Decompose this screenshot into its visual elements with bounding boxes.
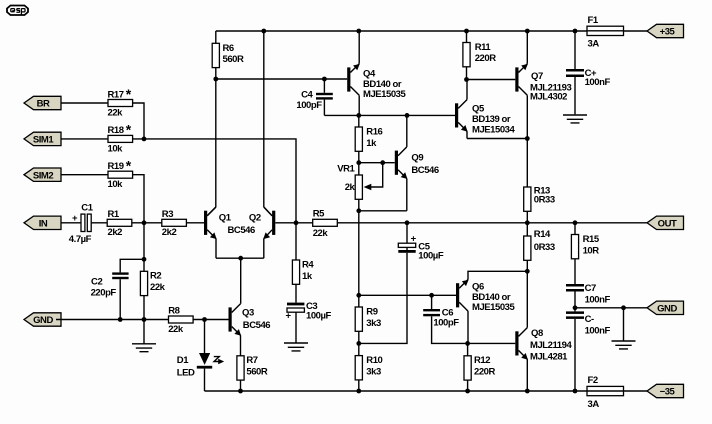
svg-text:IN: IN bbox=[39, 218, 48, 229]
transistor Q5 bbox=[455, 80, 527, 139]
svg-text:BD140 or: BD140 or bbox=[472, 292, 511, 303]
wire BR to R17 bbox=[61, 102, 108, 104]
resistor R3 bbox=[162, 209, 187, 238]
svg-text:+: + bbox=[411, 234, 417, 245]
svg-text:Q9: Q9 bbox=[411, 153, 423, 164]
capacitor C+ bbox=[566, 31, 610, 114]
wire Q8 base line bbox=[468, 342, 516, 344]
wire output ground bbox=[575, 307, 647, 309]
node Q7E-rail bbox=[525, 29, 530, 34]
svg-text:R15: R15 bbox=[583, 234, 600, 245]
svg-text:10k: 10k bbox=[108, 143, 124, 154]
svg-text:22k: 22k bbox=[313, 228, 329, 239]
wire R18 out (SIM1 line) bbox=[133, 139, 296, 223]
svg-text:F1: F1 bbox=[588, 15, 599, 26]
svg-text:MJE15035: MJE15035 bbox=[363, 89, 407, 100]
svg-text:BC546: BC546 bbox=[243, 320, 270, 331]
node ltp-tail bbox=[238, 256, 243, 261]
wire ground rail bbox=[56, 319, 229, 321]
svg-text:R12: R12 bbox=[474, 355, 490, 366]
svg-text:C2: C2 bbox=[91, 276, 102, 287]
resistor R7 bbox=[237, 355, 268, 391]
svg-text:BC546: BC546 bbox=[228, 225, 255, 236]
svg-text:3k3: 3k3 bbox=[366, 318, 381, 329]
node R13-R14 bbox=[525, 220, 530, 225]
wire Q2 collector to rail bbox=[263, 31, 265, 207]
node Q5E-node bbox=[525, 136, 530, 141]
svg-text:MJL21194: MJL21194 bbox=[530, 340, 572, 351]
resistor R19 bbox=[108, 158, 133, 191]
svg-text:220R: 220R bbox=[474, 366, 496, 377]
connector GND-in bbox=[24, 313, 61, 326]
ground output bbox=[623, 308, 625, 341]
node Q8E-bot bbox=[525, 389, 530, 394]
svg-text:Q3: Q3 bbox=[242, 308, 254, 319]
connector SIM1 bbox=[24, 132, 61, 145]
node R9-top bbox=[356, 293, 361, 298]
capacitor C3 bbox=[286, 301, 332, 343]
wire input filter node bbox=[143, 223, 145, 259]
svg-text:10R: 10R bbox=[583, 245, 600, 256]
svg-text:2k2: 2k2 bbox=[162, 227, 177, 238]
node Cminus-bot bbox=[573, 389, 578, 394]
wire SIM2 to R19 bbox=[61, 174, 108, 176]
svg-text:1k: 1k bbox=[302, 271, 313, 282]
svg-text:MJE15035: MJE15035 bbox=[472, 302, 516, 313]
svg-text:3k3: 3k3 bbox=[366, 366, 381, 377]
connector GND-out bbox=[647, 301, 684, 314]
capacitor C4 bbox=[296, 79, 358, 115]
wire LTP emitters bbox=[215, 239, 217, 259]
svg-text:100µF: 100µF bbox=[418, 251, 444, 262]
connector SIM2 bbox=[24, 168, 61, 181]
svg-text:10k: 10k bbox=[108, 179, 124, 190]
svg-text:3A: 3A bbox=[588, 38, 600, 49]
fuse F2 bbox=[587, 375, 647, 410]
wire Q1 collector bbox=[215, 79, 217, 207]
svg-text:GND: GND bbox=[657, 303, 677, 314]
svg-text:R8: R8 bbox=[168, 305, 179, 316]
svg-text:0R33: 0R33 bbox=[534, 242, 555, 253]
svg-text:BD139 or: BD139 or bbox=[472, 114, 511, 125]
svg-text:4.7µF: 4.7µF bbox=[69, 234, 92, 245]
ground under C+ bbox=[563, 115, 587, 123]
svg-text:SIM2: SIM2 bbox=[33, 170, 54, 181]
svg-text:R5: R5 bbox=[313, 208, 325, 219]
wire tail to Q3 bbox=[240, 258, 242, 304]
svg-text:22k: 22k bbox=[108, 107, 124, 118]
fuse F1 bbox=[587, 15, 647, 50]
svg-text:Q1: Q1 bbox=[219, 212, 232, 223]
node Q4C-node bbox=[356, 113, 361, 118]
svg-text:MJL4281: MJL4281 bbox=[530, 351, 568, 362]
wire R17 out bbox=[133, 103, 144, 139]
svg-text:100nF: 100nF bbox=[585, 326, 611, 337]
wire R5 to output rail bbox=[337, 222, 407, 224]
resistor R8 bbox=[168, 305, 193, 334]
connector +35 bbox=[647, 24, 684, 37]
resistor R6 bbox=[212, 31, 244, 79]
transistor Q1 bbox=[204, 207, 232, 239]
node out-node bbox=[573, 220, 578, 225]
wire R11 bottom to Q7 base bbox=[467, 79, 516, 81]
svg-text:R6: R6 bbox=[223, 43, 234, 54]
svg-text:3A: 3A bbox=[588, 399, 600, 410]
capacitor C5 bbox=[359, 223, 444, 344]
capacitor C6 bbox=[423, 295, 467, 343]
wire VAS input line bbox=[359, 114, 455, 116]
wire -35 bottom rail bbox=[205, 390, 588, 392]
svg-text:100nF: 100nF bbox=[585, 77, 611, 88]
svg-text:F2: F2 bbox=[588, 375, 598, 386]
svg-text:C-: C- bbox=[585, 314, 594, 325]
wire bias line bbox=[359, 162, 395, 164]
ground input bbox=[143, 320, 145, 344]
svg-text:220pF: 220pF bbox=[91, 288, 117, 299]
svg-text:R14: R14 bbox=[534, 229, 551, 240]
svg-text:Q5: Q5 bbox=[472, 104, 485, 115]
resistor R2 bbox=[140, 259, 165, 319]
trimpot VR1 bbox=[337, 163, 382, 211]
node C2-gnd bbox=[118, 317, 123, 322]
wire lower base line bbox=[359, 294, 456, 296]
transistor Q8 bbox=[515, 271, 572, 391]
resistor R5 bbox=[296, 208, 337, 238]
wire base line upper (R6 bottom to Q4 base) bbox=[216, 78, 347, 80]
resistor R15 bbox=[571, 223, 599, 284]
svg-text:R7: R7 bbox=[246, 355, 257, 366]
capacitor C1 bbox=[69, 203, 94, 245]
node D1-top bbox=[202, 317, 207, 322]
svg-text:2k: 2k bbox=[345, 182, 356, 193]
node fb-node bbox=[294, 220, 299, 225]
svg-text:C1: C1 bbox=[81, 203, 93, 214]
node C4-top bbox=[322, 77, 327, 82]
svg-text:1k: 1k bbox=[366, 138, 377, 149]
wire SIM1 to R18 bbox=[61, 138, 108, 140]
svg-text:SIM1: SIM1 bbox=[33, 135, 55, 146]
connector BR bbox=[24, 96, 61, 109]
connector OUT bbox=[647, 216, 684, 229]
svg-text:220R: 220R bbox=[475, 53, 497, 64]
svg-text:MJE15034: MJE15034 bbox=[472, 124, 516, 135]
svg-text:Q2: Q2 bbox=[249, 212, 261, 223]
resistor R10 bbox=[355, 343, 382, 391]
node R2-C2 bbox=[142, 257, 147, 262]
svg-text:BC546: BC546 bbox=[411, 165, 438, 176]
node R7-bot bbox=[238, 389, 243, 394]
resistor R11 bbox=[463, 31, 496, 80]
svg-text:2k2: 2k2 bbox=[108, 227, 123, 238]
svg-text:+35: +35 bbox=[660, 27, 676, 38]
node R17-R18 bbox=[142, 137, 147, 142]
svg-text:Q7: Q7 bbox=[531, 71, 543, 82]
node gnd-sym-node bbox=[621, 305, 626, 310]
svg-text:+: + bbox=[286, 311, 292, 322]
node C6-top bbox=[429, 293, 434, 298]
wire +35 top rail bbox=[216, 30, 587, 32]
node Q4E-rail bbox=[356, 29, 361, 34]
svg-text:VR1: VR1 bbox=[337, 164, 355, 175]
node VR1-bottom bbox=[356, 208, 361, 213]
svg-text:Q6: Q6 bbox=[472, 281, 484, 292]
wire Q2 base to node bbox=[275, 222, 296, 224]
node gnd-out bbox=[573, 305, 578, 310]
node R11-top bbox=[464, 29, 469, 34]
svg-text:560R: 560R bbox=[246, 367, 268, 378]
svg-text:100pF: 100pF bbox=[296, 100, 322, 111]
transistor Q7 bbox=[515, 31, 571, 139]
node Q8-base-node bbox=[465, 341, 470, 346]
node R11-bottom bbox=[464, 77, 469, 82]
ESP logo bbox=[7, 6, 28, 16]
node R10-bot bbox=[356, 389, 361, 394]
svg-text:R11: R11 bbox=[475, 42, 492, 53]
wire R1 to R3 bbox=[132, 222, 162, 224]
LED D1 bbox=[177, 320, 224, 392]
resistor R4 bbox=[292, 223, 314, 303]
capacitor C- bbox=[566, 308, 610, 391]
svg-text:R1: R1 bbox=[108, 209, 120, 220]
svg-text:22k: 22k bbox=[168, 324, 184, 335]
svg-text:R4: R4 bbox=[302, 259, 314, 270]
svg-text:0R33: 0R33 bbox=[534, 195, 555, 206]
svg-text:LED: LED bbox=[177, 368, 195, 379]
node wiper-tap bbox=[380, 160, 385, 165]
resistor R18 bbox=[108, 122, 133, 155]
svg-text:R10: R10 bbox=[366, 355, 382, 366]
svg-text:C7: C7 bbox=[585, 283, 596, 294]
transistor Q2 (mirrored) bbox=[228, 207, 276, 239]
resistor R13 bbox=[524, 139, 555, 223]
transistor Q4 bbox=[347, 31, 406, 115]
node out-c5 bbox=[405, 220, 410, 225]
node C+-top bbox=[573, 29, 578, 34]
resistor R16 bbox=[355, 115, 382, 162]
svg-text:MJL4302: MJL4302 bbox=[530, 92, 567, 103]
connector IN bbox=[24, 216, 61, 229]
transistor Q3 bbox=[229, 304, 271, 356]
resistor R12 bbox=[464, 343, 496, 391]
node R9-R10 bbox=[356, 341, 361, 346]
wire R19 out bbox=[133, 175, 144, 223]
svg-text:560R: 560R bbox=[223, 54, 245, 65]
wire VR1 bottom to Q9 emitter bbox=[359, 210, 407, 212]
svg-text:C4: C4 bbox=[301, 90, 313, 101]
svg-text:R16: R16 bbox=[366, 126, 382, 137]
capacitor C7 bbox=[566, 283, 610, 308]
svg-text:Q4: Q4 bbox=[363, 68, 376, 79]
node R2-gnd bbox=[142, 317, 147, 322]
resistor R1 bbox=[107, 209, 132, 238]
node R14-bottom bbox=[525, 269, 530, 274]
wire IN to C1 bbox=[61, 222, 81, 224]
ground under C3 bbox=[284, 343, 308, 351]
wire left rail down bbox=[358, 211, 360, 295]
node R6-bottom bbox=[213, 77, 218, 82]
transistor Q6 bbox=[456, 271, 527, 343]
node R12-bot bbox=[465, 389, 470, 394]
resistor R9 bbox=[355, 295, 381, 343]
svg-text:GND: GND bbox=[33, 315, 53, 326]
svg-text:22k: 22k bbox=[150, 282, 166, 293]
svg-text:R3: R3 bbox=[162, 209, 173, 220]
wire output rail bbox=[407, 222, 647, 224]
connector -35 bbox=[647, 384, 684, 397]
svg-text:R9: R9 bbox=[366, 306, 377, 317]
svg-text:100nF: 100nF bbox=[585, 295, 611, 306]
svg-text:R2: R2 bbox=[150, 271, 161, 282]
node Q9C-node bbox=[405, 113, 410, 118]
svg-text:BD140 or: BD140 or bbox=[363, 79, 402, 90]
capacitor C2 bbox=[91, 259, 144, 319]
node input-node bbox=[142, 220, 147, 225]
svg-text:100pF: 100pF bbox=[433, 317, 459, 328]
svg-text:BR: BR bbox=[37, 99, 50, 110]
resistor R17 bbox=[108, 86, 133, 119]
node Q2C-rail bbox=[261, 29, 266, 34]
svg-text:−35: −35 bbox=[660, 387, 676, 398]
transistor Q9 bbox=[395, 115, 439, 210]
svg-text:OUT: OUT bbox=[658, 218, 677, 229]
svg-text:Q8: Q8 bbox=[531, 328, 543, 339]
node R16-bottom bbox=[356, 160, 361, 165]
svg-text:D1: D1 bbox=[177, 355, 189, 366]
resistor R14 bbox=[524, 223, 555, 271]
svg-text:+: + bbox=[72, 213, 78, 224]
svg-text:100µF: 100µF bbox=[306, 310, 332, 321]
wire C1 to R1 bbox=[91, 222, 107, 224]
wire R3 to Q1 base bbox=[186, 222, 204, 224]
